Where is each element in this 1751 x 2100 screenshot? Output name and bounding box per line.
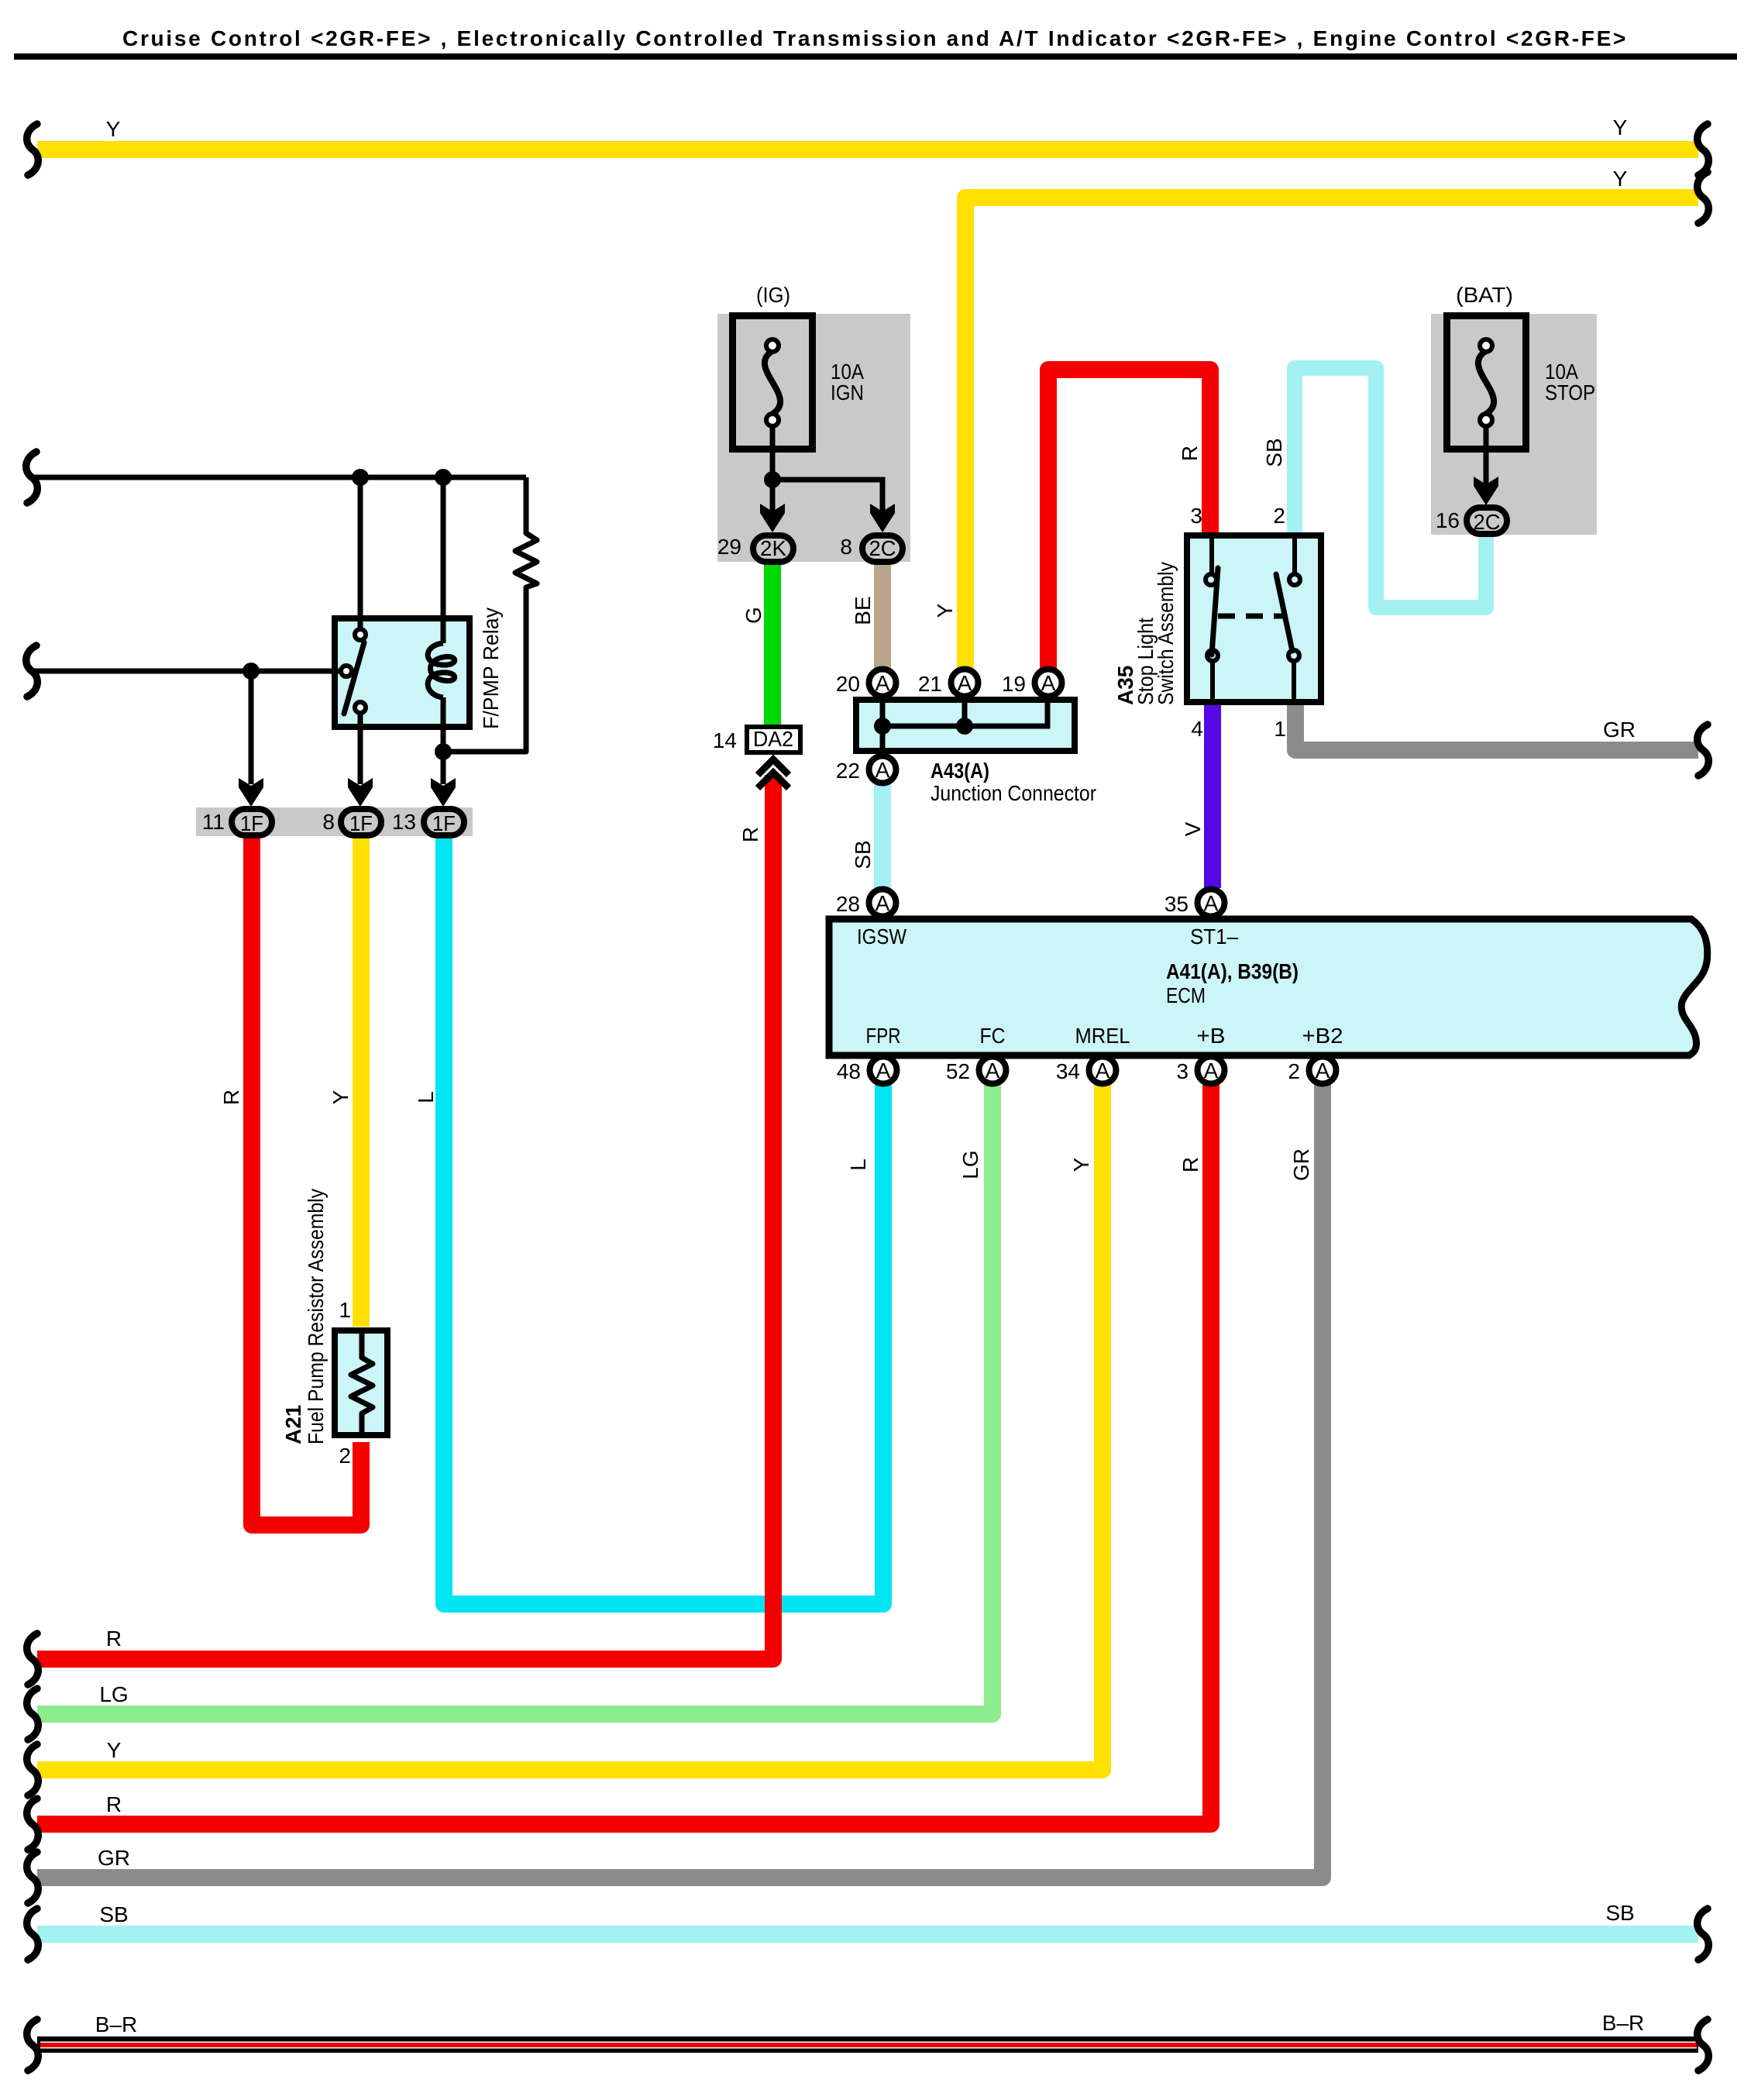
svg-text:Junction Connector: Junction Connector (931, 781, 1096, 805)
svg-text:Y: Y (1069, 1157, 1093, 1172)
relay switch blade (344, 642, 364, 714)
wire black to relay coil (441, 477, 446, 643)
relay switch contact top (355, 629, 366, 640)
ECM box A41(A),B39(B) (829, 919, 1708, 1055)
A35 dashed link (1218, 614, 1283, 619)
svg-text:B–R: B–R (95, 2012, 137, 2036)
svg-text:+B2: +B2 (1302, 1024, 1343, 1048)
svg-text:STOP: STOP (1545, 380, 1595, 405)
svg-text:34: 34 (1056, 1059, 1080, 1083)
pin circle A43-A 20 (869, 670, 896, 697)
break squiggle LG left (27, 1689, 39, 1740)
svg-text:SB: SB (1262, 438, 1286, 466)
svg-text:3: 3 (1176, 1059, 1189, 1083)
svg-text:R: R (106, 1627, 122, 1651)
svg-text:SB: SB (851, 840, 875, 869)
svg-text:SB: SB (99, 1902, 128, 1926)
svg-text:R: R (1178, 1157, 1202, 1172)
svg-text:Y: Y (106, 117, 121, 141)
svg-text:A: A (875, 758, 890, 782)
arrow into connector 2C pin 16 (1474, 477, 1498, 505)
svg-text:FC: FC (980, 1024, 1006, 1048)
connector oval 1F pin 13 (424, 809, 464, 835)
wire Y yellow ECM pin34 MREL to left edge (37, 1085, 1103, 1770)
svg-text:L: L (414, 1091, 438, 1103)
svg-text:(IG): (IG) (756, 283, 790, 307)
wire black to relay switch (358, 477, 363, 629)
svg-text:22: 22 (836, 759, 860, 783)
wire black relay coil to 1F13 arrow (441, 697, 446, 784)
svg-text:35: 35 (1164, 892, 1189, 916)
svg-text:V: V (1181, 821, 1205, 836)
connector oval 1F pin 8 (341, 809, 381, 835)
A35 stop light switch box (1187, 535, 1321, 702)
svg-text:2C: 2C (1474, 510, 1501, 534)
pin circle ECM-A 28 (869, 890, 896, 917)
break squiggle Y top left (27, 124, 39, 175)
svg-text:A: A (986, 1059, 1000, 1083)
svg-text:R: R (1178, 446, 1202, 461)
break squiggle Y top right (1698, 124, 1709, 175)
fuse 10A IGN rectangle (733, 316, 813, 449)
svg-text:A: A (876, 1059, 891, 1083)
wire SB skyblue A43 pin22 to ECM pin28 (874, 784, 891, 888)
svg-text:2: 2 (1273, 504, 1285, 528)
svg-text:29: 29 (717, 535, 741, 559)
svg-text:A43(A): A43(A) (931, 759, 989, 783)
A35 right contact top (1289, 574, 1300, 585)
break squiggle SB left (27, 1909, 39, 1960)
svg-text:ST1–: ST1– (1190, 924, 1238, 948)
wire V violet A35 pin4 to ECM pin35 (1204, 701, 1221, 888)
arrow into connector 1F pin 8 (348, 778, 373, 807)
wire B-R black-red bottom full-width (37, 2036, 1698, 2053)
svg-text:MREL: MREL (1075, 1024, 1130, 1048)
title rule (14, 53, 1737, 60)
svg-text:28: 28 (836, 892, 860, 916)
svg-text:8: 8 (322, 810, 335, 834)
wire black top feed horizontal (34, 475, 526, 480)
svg-text:Y: Y (107, 1738, 122, 1762)
wire G green 2K to DA2 (764, 563, 781, 727)
svg-text:19: 19 (1002, 672, 1026, 696)
svg-text:52: 52 (946, 1059, 970, 1083)
svg-text:2: 2 (1288, 1059, 1300, 1083)
gray band 1F connector row (196, 807, 473, 836)
wire LG light-green ECM pin52 to left edge (37, 1085, 992, 1714)
node junction dot top-switch (352, 469, 369, 486)
relay switch contact common (341, 666, 352, 676)
svg-text:A41(A), B39(B): A41(A), B39(B) (1166, 959, 1299, 983)
svg-text:SB: SB (1605, 1901, 1634, 1925)
break squiggle Y second right (1698, 172, 1709, 223)
svg-text:LG: LG (958, 1150, 982, 1179)
arrow into connector 2K (760, 504, 785, 532)
wire black IGN fuse to 2K (770, 426, 776, 515)
wire black IGN branch to 2C (772, 480, 882, 515)
relay switch contact bottom (355, 702, 366, 713)
wire BE beige 2C8 to A43 pin20 (874, 563, 891, 670)
pin circle ECM-A 52 (979, 1057, 1006, 1084)
svg-text:8: 8 (840, 535, 852, 559)
arrow into connector 2C pin 8 (870, 504, 895, 532)
svg-text:1: 1 (339, 1298, 351, 1322)
arrow into connector 1F pin 13 (431, 778, 456, 807)
gray box BAT fusebox (1431, 314, 1597, 535)
svg-text:3: 3 (1190, 504, 1202, 528)
pin circle ECM-A 34 (1089, 1057, 1116, 1084)
node junction dot second feed (243, 663, 260, 680)
wire black relay switch to 1F8 arrow (358, 713, 363, 784)
arrow into connector 1F pin 11 (239, 778, 263, 807)
svg-text:B–R: B–R (1602, 2011, 1644, 2035)
svg-text:R: R (219, 1090, 243, 1105)
svg-text:R: R (738, 827, 762, 842)
pin circle A43-A 21 (951, 670, 979, 697)
A21 internal resistor (351, 1329, 373, 1438)
svg-text:Cruise Control <2GR-FE> , Elec: Cruise Control <2GR-FE> , Electronically… (122, 26, 1628, 50)
break squiggle GR left (27, 1852, 39, 1903)
svg-text:R: R (106, 1792, 122, 1816)
A21 fuel pump resistor box (335, 1331, 387, 1435)
wire black STOP fuse to 2C16 (1484, 426, 1489, 487)
pin circle ECM-A 35 (1198, 890, 1225, 917)
resistor (pump speed resistor) (443, 477, 537, 752)
pin circle ECM-A 3 (1198, 1057, 1225, 1084)
fuse 10A STOP rectangle (1447, 316, 1526, 449)
DA2 shield chevron lower (758, 773, 789, 788)
wire Y yellow top full-width (37, 141, 1698, 158)
svg-text:2K: 2K (760, 536, 786, 560)
node junction dot below coil (435, 743, 452, 760)
svg-text:20: 20 (836, 672, 860, 696)
svg-text:1F: 1F (349, 811, 373, 835)
A35 switch internal wire pin2 (1292, 535, 1297, 575)
svg-text:Y: Y (1613, 115, 1628, 139)
break squiggle Y left (27, 1744, 39, 1795)
svg-text:A: A (1204, 1059, 1219, 1083)
A35 switch internal wire pin4 (1210, 660, 1215, 702)
pin circle ECM-A 2 (1309, 1057, 1336, 1084)
wire Y yellow 1F8 to A21 pin1 (353, 835, 370, 1327)
wire R red 1F11 to A21 pin2 (252, 835, 361, 1525)
svg-text:Y: Y (329, 1090, 353, 1104)
wire black dot to 1F11 arrow (249, 671, 254, 784)
break squiggle GR right (1698, 725, 1709, 776)
DA2 shield chevron upper (758, 759, 789, 775)
svg-text:F/PMP Relay: F/PMP Relay (479, 608, 503, 729)
connector oval 1F pin 11 (232, 809, 272, 835)
svg-text:16: 16 (1436, 508, 1460, 532)
fuse 10A STOP element (1478, 351, 1494, 414)
node junction dot top-coil (435, 469, 452, 486)
break squiggle B-R left (27, 2019, 39, 2071)
svg-text:A: A (1204, 891, 1219, 915)
A43 node dot pin21 bus (956, 718, 973, 735)
svg-text:A: A (958, 671, 972, 695)
svg-text:A: A (1041, 671, 1056, 695)
svg-text:LG: LG (99, 1682, 128, 1706)
svg-text:L: L (846, 1158, 870, 1171)
wire R red ECM pin3 +B to left edge (37, 1085, 1211, 1824)
svg-text:2C: 2C (869, 536, 896, 560)
break squiggle B-R right (1698, 2019, 1709, 2071)
break squiggle black feed 2 (26, 645, 38, 697)
svg-text:IGSW: IGSW (857, 924, 906, 948)
break squiggle SB right (1698, 1909, 1709, 1960)
break squiggle R2 left (27, 1799, 39, 1850)
pin circle A43-A 19 (1035, 670, 1062, 697)
svg-text:A: A (875, 891, 890, 915)
A43 internal bus vertical pin20-22 (880, 697, 886, 754)
svg-text:Y: Y (1613, 167, 1628, 191)
A35 left contact top (1206, 574, 1216, 585)
fuse 10A IGN element (765, 351, 780, 414)
svg-text:Y: Y (933, 603, 957, 618)
svg-text:A21: A21 (281, 1405, 305, 1444)
connector oval 2C pin 8 (862, 535, 903, 562)
A35 right blade (1276, 574, 1292, 651)
svg-text:GR: GR (1289, 1148, 1313, 1181)
connector oval 2K pin 29 (753, 535, 793, 562)
svg-text:BE: BE (851, 596, 875, 625)
svg-text:Fuel Pump Resistor Assembly: Fuel Pump Resistor Assembly (304, 1189, 328, 1444)
svg-text:G: G (741, 607, 765, 624)
svg-text:Switch Assembly: Switch Assembly (1154, 562, 1178, 705)
svg-text:21: 21 (918, 672, 942, 696)
svg-text:4: 4 (1191, 717, 1203, 741)
wire L blue 1F13 to ECM pin48 (444, 835, 883, 1604)
A35 right contact bottom (1288, 650, 1299, 661)
A35 left blade (1212, 568, 1218, 655)
svg-text:2: 2 (339, 1444, 351, 1468)
svg-text:1F: 1F (240, 811, 263, 835)
wire Y yellow second to A43 pin21 (965, 198, 1698, 670)
gray box IG fusebox (717, 314, 910, 562)
svg-text:A: A (1096, 1059, 1110, 1083)
svg-text:48: 48 (837, 1059, 861, 1083)
A43 node dot pin20 bus (874, 718, 891, 735)
F/PMP relay box (335, 618, 470, 727)
svg-text:(BAT): (BAT) (1456, 283, 1513, 307)
break squiggle black feed 1 (26, 452, 38, 503)
svg-text:1: 1 (1274, 717, 1286, 741)
DA2 connector box pin 14 (747, 727, 800, 752)
A43 internal bus horizontal (882, 697, 1048, 726)
pin circle ECM-A 48 (870, 1057, 897, 1084)
wire GR gray A35 pin1 to right edge (1295, 701, 1698, 750)
svg-text:14: 14 (713, 728, 737, 752)
A43 internal stub pin21 (962, 697, 968, 726)
svg-text:11: 11 (202, 810, 225, 834)
node junction dot IGN branch (764, 471, 781, 488)
svg-text:A: A (1316, 1059, 1330, 1083)
connector oval 2C pin 16 (1467, 508, 1507, 534)
svg-text:IGN: IGN (831, 380, 864, 405)
svg-text:DA2: DA2 (753, 727, 793, 751)
break squiggle R left (27, 1634, 39, 1685)
svg-text:GR: GR (98, 1846, 130, 1870)
pin circle A43-A 22 (869, 756, 896, 783)
wire SB skyblue bottom full-width (37, 1926, 1698, 1943)
svg-text:1F: 1F (432, 811, 456, 835)
relay coil (428, 643, 455, 697)
A43 junction connector box (856, 700, 1075, 751)
wire R red DA2 down to left edge (37, 775, 773, 1659)
A35 left contact bottom (1207, 650, 1218, 661)
wire GR gray ECM pin2 +B2 to left edge (37, 1085, 1323, 1878)
wire R red A43 pin19 to A35 pin3 (1048, 370, 1210, 670)
A35 switch internal wire pin1 (1292, 660, 1296, 702)
svg-text:+B: +B (1197, 1024, 1226, 1048)
svg-text:A: A (875, 671, 890, 695)
A35 switch internal wire pin3 (1209, 535, 1214, 575)
svg-text:FPR: FPR (866, 1024, 901, 1048)
svg-text:13: 13 (392, 810, 416, 834)
svg-text:GR: GR (1603, 718, 1636, 742)
svg-text:ECM: ECM (1166, 983, 1206, 1007)
wire SB skyblue A35 pin2 to 2C16 (1295, 368, 1486, 608)
wire black second feed horizontal (34, 669, 342, 674)
